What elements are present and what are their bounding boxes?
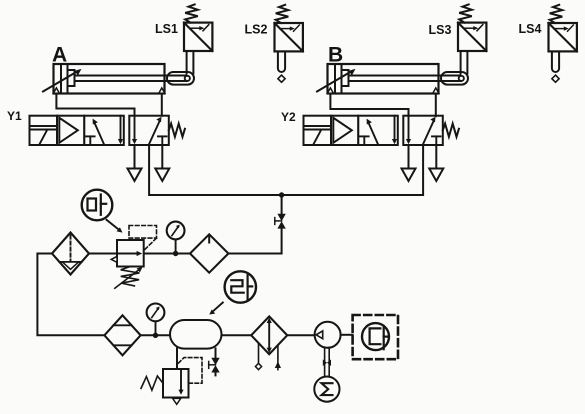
exhaust muffler valve Y2 right	[429, 145, 443, 181]
shaft compressor to motor	[323, 347, 331, 376]
wire filter to left riser	[37, 254, 104, 336]
gauge 2	[147, 304, 165, 322]
shutoff valve supply	[275, 214, 286, 229]
arrow Ma to regulator	[107, 220, 123, 233]
wire compressor to dashed box	[341, 334, 353, 336]
balloon Ra	[225, 271, 256, 302]
lubricator	[190, 234, 228, 272]
wire lubricator to regulator	[144, 253, 190, 255]
svg-text:B: B	[328, 44, 343, 67]
balloon Da	[362, 323, 389, 350]
regulator	[111, 240, 144, 288]
relief valve pilot dashed line	[177, 358, 202, 384]
limit switch LS4	[549, 5, 577, 83]
exhaust muffler valve Y1 left	[128, 145, 142, 181]
node gauge junction 2	[153, 333, 158, 338]
valve Y1	[30, 116, 185, 145]
exhaust muffler valve Y1 right	[155, 145, 169, 181]
pressure relief valve	[141, 369, 189, 404]
regulator pilot dashed box	[129, 226, 157, 251]
arrow Ra to tank	[209, 303, 223, 315]
wire cylinder A right port to valve Y1 port B	[161, 94, 163, 116]
dashed box Da	[353, 315, 398, 359]
wire tank to aftercooler	[222, 334, 252, 336]
svg-text:LS1: LS1	[155, 22, 178, 36]
wire shutoff valve to lubricator	[228, 229, 281, 254]
svg-text:Y1: Y1	[7, 109, 22, 123]
wire gauge 2 stem	[155, 321, 157, 335]
air dryer	[104, 315, 140, 355]
wire junction to shutoff valve	[281, 195, 283, 214]
limit switch LS3	[458, 4, 486, 73]
exhaust muffler valve Y2 left	[402, 145, 416, 181]
wire drain valve outlet	[215, 373, 217, 376]
wire tank to drain valve	[215, 349, 217, 358]
cylinder A	[43, 64, 194, 94]
balloon Ma	[82, 190, 113, 221]
label sigma	[322, 383, 333, 395]
limit switch LS2	[275, 5, 303, 83]
gauge 1	[167, 222, 185, 240]
wire supply manifold	[149, 145, 423, 195]
wire cylinder B right port to valve Y2 port B	[435, 94, 437, 116]
limit switch LS1	[184, 4, 212, 73]
wire filter to regulator	[89, 253, 117, 255]
svg-text:A: A	[52, 44, 67, 67]
svg-text:LS2: LS2	[245, 23, 268, 37]
wire dryer to tank	[141, 334, 170, 336]
node gauge junction 1	[173, 251, 178, 256]
motor	[314, 377, 339, 402]
wire cylinder A left port to valve Y1 port A	[56, 94, 134, 116]
svg-text:LS4: LS4	[519, 22, 542, 36]
node supply junction	[279, 192, 284, 197]
filter with separator	[52, 233, 89, 275]
aftercooler	[251, 316, 287, 369]
cylinder B	[317, 64, 468, 94]
wire tank to relief valve	[176, 349, 178, 370]
valve Y2	[304, 116, 459, 145]
wire cylinder B left port to valve Y2 port A	[330, 94, 408, 116]
wire gauge 1 stem	[175, 239, 177, 253]
drain shutoff valve	[209, 358, 220, 373]
svg-text:LS3: LS3	[429, 23, 452, 37]
wire aftercooler to compressor	[287, 334, 314, 336]
svg-text:Y2: Y2	[281, 110, 296, 124]
compressor	[315, 322, 341, 348]
air receiver tank	[170, 320, 222, 349]
